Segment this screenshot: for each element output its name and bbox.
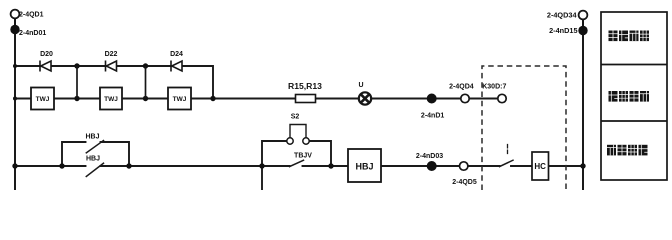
svg-text:TWJ: TWJ xyxy=(36,96,50,103)
svg-text:2-4QD34: 2-4QD34 xyxy=(547,11,578,20)
svg-text:TWJ: TWJ xyxy=(173,96,187,103)
svg-text:2-4QD1: 2-4QD1 xyxy=(19,12,44,19)
svg-text:K30D:7: K30D:7 xyxy=(482,84,506,91)
svg-text:2-4nD01: 2-4nD01 xyxy=(19,30,46,37)
svg-text:2-4nD1: 2-4nD1 xyxy=(421,113,444,120)
svg-text:TWJ: TWJ xyxy=(104,96,118,103)
svg-text:D24: D24 xyxy=(170,51,183,58)
svg-text:2-4QD4: 2-4QD4 xyxy=(449,84,474,91)
svg-text:TBJV: TBJV xyxy=(294,153,312,160)
svg-text:U: U xyxy=(358,82,363,89)
svg-text:S2: S2 xyxy=(291,114,300,121)
svg-text:HC: HC xyxy=(534,162,546,171)
svg-text:HBJ: HBJ xyxy=(355,162,373,172)
svg-text:R15,R13: R15,R13 xyxy=(288,81,322,91)
svg-text:D22: D22 xyxy=(105,51,118,58)
svg-text:2-4QD5: 2-4QD5 xyxy=(452,179,477,186)
svg-text:D20: D20 xyxy=(40,51,53,58)
svg-text:2-4nD15: 2-4nD15 xyxy=(549,26,577,35)
svg-text:HBJ: HBJ xyxy=(85,134,99,141)
svg-text:HBJ: HBJ xyxy=(86,156,100,163)
svg-text:2-4nD03: 2-4nD03 xyxy=(416,153,443,160)
